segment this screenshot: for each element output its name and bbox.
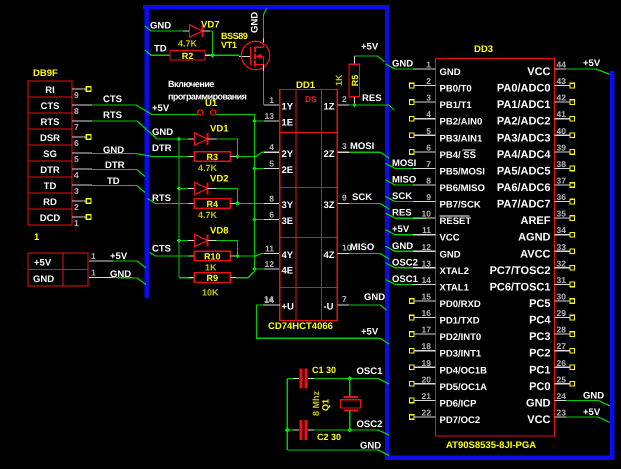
label AT90S8535-8JI-PGA — [446, 440, 536, 451]
junction clamp bus VD8 — [177, 238, 182, 243]
svg-text:3: 3 — [74, 186, 79, 196]
svg-text:2: 2 — [342, 94, 347, 104]
value 4.7K of R4 — [198, 210, 218, 220]
svg-text:PB5/MOSI: PB5/MOSI — [440, 166, 485, 177]
svg-text:AREF: AREF — [521, 215, 551, 227]
svg-text:RESET: RESET — [440, 216, 472, 227]
svg-text:GND: GND — [392, 59, 413, 70]
svg-text:PA6/ADC6: PA6/ADC6 — [497, 182, 551, 194]
wire +5V to R5 top — [355, 42, 385, 65]
wire OSC2 to DD3 pin 13 — [386, 257, 436, 268]
svg-text:34: 34 — [557, 225, 567, 235]
svg-text:R3: R3 — [207, 152, 219, 162]
svg-text:C2 30: C2 30 — [317, 432, 341, 442]
svg-text:SCK: SCK — [352, 192, 372, 203]
svg-text:+5V: +5V — [361, 42, 379, 53]
DD3 pin 20 PD5/OC1A — [410, 374, 488, 393]
svg-text:3Y: 3Y — [282, 200, 294, 211]
value 10K of R9 — [202, 288, 219, 298]
DD1 pin 5 stub — [255, 168, 280, 170]
svg-text:+5V: +5V — [110, 251, 128, 262]
svg-text:PD7/OC2: PD7/OC2 — [440, 415, 481, 426]
svg-text:GND: GND — [250, 12, 261, 33]
label C2 30 — [317, 432, 341, 442]
svg-text:33: 33 — [557, 242, 567, 252]
svg-text:2Y: 2Y — [282, 149, 294, 160]
svg-text:1: 1 — [74, 218, 79, 228]
svg-text:37: 37 — [557, 175, 567, 185]
op-amp DD1 CD74HCT4066 body — [280, 90, 338, 321]
wire OSC2 to blue border — [350, 419, 389, 435]
DD3 pin 4 PB2/AIN0 — [410, 109, 483, 128]
svg-text:29: 29 — [557, 308, 567, 318]
DD3 pin 30 PC5 — [529, 291, 575, 310]
svg-text:36: 36 — [557, 192, 567, 202]
DD3 pin 24 GND — [526, 391, 566, 410]
svg-text:XTAL2: XTAL2 — [440, 266, 469, 277]
junction channel 3 — [235, 254, 240, 259]
power connector body — [28, 253, 88, 286]
svg-text:DSR: DSR — [40, 133, 60, 144]
svg-text:1K: 1K — [334, 74, 344, 86]
svg-text:VD7: VD7 — [201, 20, 219, 31]
switch U1 contacts — [198, 110, 216, 115]
svg-text:20: 20 — [422, 374, 432, 384]
svg-text:9: 9 — [426, 192, 431, 202]
DD1 left pin 5 2E — [269, 159, 293, 177]
DB9F row label RD — [43, 197, 57, 208]
DD3 pin 19 PD4/OC1B — [410, 358, 488, 377]
svg-text:4.7K: 4.7K — [198, 163, 218, 173]
capacitor C2 — [287, 420, 350, 440]
DD3 pin 10 RESET — [413, 209, 471, 228]
svg-text:6: 6 — [74, 138, 79, 148]
svg-text:1: 1 — [426, 60, 431, 70]
wire GND from DB9F pin 5 to R3 — [92, 143, 189, 157]
DD1 right pin 10 4Z — [324, 242, 352, 261]
svg-text:17: 17 — [422, 325, 432, 335]
DB9F row label CTS — [41, 101, 60, 112]
resistor R10 — [189, 251, 237, 261]
DB9F row label DTR — [40, 165, 60, 176]
DD3 pin 18 PD3/INT1 — [410, 341, 482, 360]
DB9F pin 3 stub — [72, 185, 92, 196]
svg-text:7: 7 — [342, 294, 347, 304]
svg-text:MOSI: MOSI — [350, 141, 374, 152]
value 1K of R5 — [334, 74, 344, 86]
svg-text:DB9F: DB9F — [33, 68, 58, 79]
DD1 left pin 12 4E — [265, 259, 294, 277]
svg-text:R2: R2 — [182, 51, 194, 61]
resistor R9 — [189, 273, 237, 283]
DD3 pin 25 PC0 — [529, 374, 575, 393]
DD3 pin 8 PB6/MISO — [413, 175, 485, 194]
DD1 right pin 9 3Z — [324, 192, 350, 211]
svg-text:24: 24 — [557, 391, 567, 401]
svg-text:PC5: PC5 — [529, 298, 550, 310]
value 4.7K of R2 — [178, 39, 198, 49]
resistor R4 — [189, 199, 237, 209]
svg-text:TD: TD — [107, 176, 120, 187]
annotation text line 1 — [168, 79, 214, 89]
svg-text:C1 30: C1 30 — [312, 365, 336, 375]
wire +5V from DD3 pin 23 — [566, 407, 610, 423]
DB9F row label TD — [44, 181, 57, 192]
svg-text:PC2: PC2 — [529, 348, 550, 360]
wire TD from DB9F pin 3 ending at blue border — [92, 176, 145, 193]
svg-text:PB0/T0: PB0/T0 — [440, 84, 472, 95]
wire channel 2 to DD1 pin 8 — [238, 202, 280, 204]
svg-text:RTS: RTS — [103, 110, 122, 121]
label 8 Mhz rotated — [311, 390, 321, 416]
label C1 30 — [312, 365, 336, 375]
DD3 pin 26 PC1 — [529, 358, 575, 377]
svg-text:1: 1 — [91, 268, 96, 278]
wire VD1 cathode to R3 right — [217, 139, 238, 157]
diode VD7 — [183, 25, 210, 37]
svg-text:MOSI: MOSI — [392, 158, 416, 169]
svg-text:7: 7 — [426, 159, 431, 169]
junction channel 2 — [235, 201, 240, 206]
svg-text:VCC: VCC — [527, 66, 550, 78]
svg-text:2Z: 2Z — [324, 149, 335, 160]
wire TD to R2 — [145, 44, 170, 56]
svg-text:OSC1: OSC1 — [392, 274, 419, 285]
svg-text:DTR: DTR — [40, 165, 60, 176]
svg-text:PA4/ADC4: PA4/ADC4 — [497, 149, 551, 161]
svg-text:GND: GND — [583, 390, 604, 401]
svg-text:AVCC: AVCC — [520, 248, 550, 260]
wire U1 to enable bus — [216, 114, 255, 116]
label BSS89 — [221, 31, 248, 41]
DD3 pin 3 PB1/T1 — [410, 93, 473, 112]
wire SCK to DD3 pin 9 — [386, 191, 436, 202]
DD1 left pin 6 3E — [269, 210, 293, 228]
DD1 left pin 1 1Y — [269, 95, 294, 113]
svg-text:PB6/MISO: PB6/MISO — [440, 183, 485, 194]
wire GND from DD1 pin 7 — [349, 292, 387, 310]
DD3 pin 36 PA7/ADC7 — [497, 192, 575, 211]
svg-text:PD0/RXD: PD0/RXD — [440, 299, 481, 310]
DD3 pin 44 VCC — [527, 60, 566, 79]
svg-text:+U: +U — [282, 302, 295, 313]
svg-text:GND: GND — [33, 274, 54, 285]
wire MOSI to DD3 pin 7 — [386, 158, 436, 169]
diode VD1 — [179, 133, 217, 145]
svg-text:40: 40 — [557, 126, 567, 136]
DD1 left pin 13 1E — [265, 111, 294, 129]
svg-text:OSC1: OSC1 — [357, 366, 384, 377]
svg-text:PD1/TXD: PD1/TXD — [440, 316, 480, 327]
svg-text:PA2/ADC2: PA2/ADC2 — [497, 116, 551, 128]
wire CTS from DB9F pin 8 to +5V node — [92, 94, 198, 115]
svg-text:10K: 10K — [202, 288, 219, 298]
svg-text:15: 15 — [422, 291, 432, 301]
svg-text:MISO: MISO — [350, 242, 374, 253]
label VD1 — [210, 124, 229, 135]
svg-text:GND: GND — [364, 292, 385, 303]
svg-text:31: 31 — [557, 275, 567, 285]
junction at R2 right — [210, 53, 215, 58]
wire R5 bottom to RES net — [354, 97, 356, 105]
wire VD2 cathode to R4 right — [217, 189, 238, 204]
svg-text:RTS: RTS — [152, 193, 171, 204]
svg-text:+5V: +5V — [152, 103, 170, 114]
svg-text:PC4: PC4 — [529, 315, 551, 327]
svg-text:OSC2: OSC2 — [392, 257, 418, 268]
wire MOSI from DD1 pin 3 — [349, 141, 389, 158]
svg-text:+5V: +5V — [583, 407, 601, 418]
svg-text:PC3: PC3 — [529, 331, 550, 343]
power connector label +5V — [34, 258, 52, 269]
svg-text:CTS: CTS — [103, 94, 122, 105]
svg-text:PD4/OC1B: PD4/OC1B — [440, 365, 488, 376]
wire channel 3 to DD1 pin 11 — [238, 253, 280, 256]
svg-text:4.7K: 4.7K — [198, 210, 218, 220]
wire crystal GND to blue border — [287, 441, 389, 456]
DD3 pin 40 PA3/ADC3 — [497, 126, 575, 145]
svg-text:3: 3 — [426, 93, 431, 103]
svg-text:GND: GND — [360, 441, 381, 452]
svg-text:VD1: VD1 — [210, 124, 229, 135]
svg-text:4.7K: 4.7K — [178, 39, 198, 49]
power connector pin 1 stub — [89, 251, 113, 261]
wire R9 right to enable bus — [236, 269, 255, 278]
svg-text:26: 26 — [557, 358, 567, 368]
wire VD8 cathode to R10 right — [217, 241, 238, 257]
svg-text:R9: R9 — [207, 273, 219, 283]
wire SCK from DD1 pin 9 — [349, 192, 389, 209]
DB9F pin 7 stub — [72, 121, 92, 132]
connector DB9F body — [28, 81, 72, 225]
wire RES to DD3 pin 10 — [386, 208, 436, 219]
wire GND to DD3 pin 12 — [386, 241, 436, 252]
svg-text:+5V: +5V — [34, 258, 52, 269]
svg-text:GND: GND — [103, 145, 124, 156]
svg-text:1Y: 1Y — [282, 102, 294, 113]
svg-text:TD: TD — [154, 44, 167, 55]
svg-text:28: 28 — [557, 325, 567, 335]
wire +5V from DD1 pin 14 — [257, 305, 390, 344]
DB9F row label DCD — [40, 213, 61, 224]
power connector pin 2 stub — [89, 268, 113, 278]
wire VT1 drain to GND top — [264, 9, 267, 43]
DB9F pin 6 stub — [72, 135, 91, 149]
svg-text:RI: RI — [45, 85, 55, 96]
svg-text:3: 3 — [342, 141, 347, 151]
junction enable bus pin 13 — [252, 119, 257, 124]
svg-text:42: 42 — [557, 93, 567, 103]
svg-text:8 Mhz: 8 Mhz — [311, 390, 321, 416]
diode VD2 — [179, 182, 217, 194]
DD1 pin 6 stub — [255, 219, 280, 221]
crystal Q1 — [341, 379, 361, 431]
svg-text:8: 8 — [426, 175, 431, 185]
svg-text:5: 5 — [426, 126, 431, 136]
svg-text:7: 7 — [74, 122, 79, 132]
label VD8 — [210, 226, 228, 237]
DD1 right pin 3 2Z — [324, 141, 350, 160]
svg-text:22: 22 — [422, 407, 432, 417]
DD1 pin 12 stub — [255, 268, 280, 270]
svg-text:6: 6 — [426, 142, 431, 152]
label VT1 — [221, 40, 237, 50]
svg-text:RD: RD — [43, 197, 57, 208]
svg-text:1Z: 1Z — [324, 102, 335, 113]
wire RTS from DB9F pin 7 to GND clamp bus — [92, 110, 179, 139]
DB9F pin 4 stub — [72, 169, 92, 180]
DD3 pin 15 PD0/RXD — [410, 291, 481, 310]
svg-text:41: 41 — [557, 109, 567, 119]
DD3 pin 1 GND — [413, 60, 461, 79]
DB9F row label DSR — [40, 133, 60, 144]
svg-text:PA5/ADC5: PA5/ADC5 — [497, 165, 551, 177]
DB9F pin 9 stub — [72, 87, 91, 101]
wire +5V from power connector — [110, 251, 146, 268]
wire RES from DD1 pin 2 — [349, 105, 395, 111]
DD3 pin 11 VCC — [413, 225, 460, 244]
svg-text:GND: GND — [526, 397, 551, 409]
DD3 pin 2 PB0/T0 — [410, 76, 472, 95]
wire OSC1 to blue border — [350, 366, 389, 384]
wire OSC1 to DD3 pin 14 — [386, 274, 436, 285]
svg-text:SCK: SCK — [392, 191, 412, 202]
svg-text:DTR: DTR — [105, 160, 125, 171]
svg-text:R10: R10 — [204, 252, 221, 262]
svg-text:1K: 1K — [205, 263, 217, 273]
svg-text:PD3/INT1: PD3/INT1 — [440, 349, 482, 360]
svg-text:GND: GND — [440, 249, 461, 260]
junction channel 1 — [235, 154, 240, 159]
svg-text:AGND: AGND — [518, 232, 550, 244]
DD3 pin 38 PA5/ADC5 — [497, 159, 575, 178]
svg-text:6: 6 — [269, 210, 274, 220]
svg-text:OSC2: OSC2 — [357, 419, 383, 430]
resistor R2 — [170, 51, 205, 62]
DD1 pin 13 stub — [255, 120, 280, 122]
junction enable bus pin 6 — [252, 217, 257, 222]
DD3 pin 7 PB5/MOSI — [413, 159, 485, 178]
wire RTS to R4 — [148, 193, 189, 204]
svg-text:4Z: 4Z — [324, 250, 335, 261]
DD1 left pin 4 2Y — [269, 142, 294, 160]
DD3 pin 13 XTAL2 — [413, 258, 469, 277]
svg-text:44: 44 — [557, 60, 567, 70]
DB9F row label RI — [45, 85, 55, 96]
DD3 pin 5 PB3/AIN1 — [410, 126, 483, 145]
wire MISO to DD3 pin 8 — [386, 174, 436, 185]
svg-text:19: 19 — [422, 358, 432, 368]
junction clamp bus VD2 — [177, 186, 182, 191]
svg-text:Q1: Q1 — [321, 399, 331, 411]
svg-text:1: 1 — [269, 95, 274, 105]
label VD2 — [210, 174, 228, 185]
wire GND from power connector — [110, 269, 146, 285]
enable bus vertical — [254, 115, 256, 270]
svg-text:CD74HCT4066: CD74HCT4066 — [268, 321, 333, 332]
svg-text:PB3/AIN1: PB3/AIN1 — [440, 133, 483, 144]
svg-text:Включение: Включение — [168, 79, 214, 89]
svg-text:RES: RES — [362, 93, 382, 104]
wire GND to DD3 pin 1 — [386, 59, 436, 70]
wire CTS to R10 — [150, 244, 189, 257]
svg-text:4: 4 — [269, 142, 274, 152]
svg-text:GND: GND — [152, 127, 173, 138]
wire GND from DD3 pin 24 — [566, 390, 610, 406]
svg-text:DD1: DD1 — [296, 80, 316, 91]
svg-text:+5V: +5V — [392, 224, 410, 235]
DD1 left pin 11 4Y — [265, 243, 294, 261]
svg-text:PB2/AIN0: PB2/AIN0 — [440, 117, 483, 128]
junction enable bus pin 5 — [252, 166, 257, 171]
svg-text:11: 11 — [265, 243, 274, 253]
svg-text:1E: 1E — [282, 118, 294, 129]
value 1K of R10 — [205, 263, 217, 273]
DD1 pin 14 stub — [263, 294, 280, 305]
wire crystal left vertical — [286, 379, 288, 451]
wire DTR from DB9F pin 4 ending at blue border — [92, 160, 145, 177]
blue border right segment — [610, 71, 615, 460]
svg-text:11: 11 — [422, 225, 431, 235]
svg-text:VT1: VT1 — [221, 40, 237, 50]
svg-text:VCC: VCC — [527, 414, 550, 426]
svg-text:13: 13 — [422, 258, 432, 268]
svg-text:PA1/ADC1: PA1/ADC1 — [497, 99, 551, 111]
svg-text:27: 27 — [557, 341, 567, 351]
DD3 pin 9 PB7/SCK — [413, 192, 481, 211]
junction clamp bus VD1 — [177, 137, 182, 142]
svg-text:CTS: CTS — [152, 244, 171, 255]
transistor VT1 BSS89 MOSFET — [239, 41, 270, 69]
label Q1 rotated — [321, 399, 331, 411]
svg-text:12: 12 — [265, 259, 275, 269]
DD3 pin 31 PC6/TOSC1 — [490, 275, 575, 294]
DD3 pin 34 AGND — [518, 225, 574, 244]
svg-text:PD6/ICP: PD6/ICP — [440, 398, 478, 409]
svg-text:XTAL1: XTAL1 — [440, 282, 470, 293]
svg-text:2: 2 — [74, 202, 79, 212]
DD3 pin 12 GND — [413, 242, 461, 260]
svg-text:39: 39 — [557, 142, 567, 152]
svg-text:PD5/OC1A: PD5/OC1A — [440, 382, 488, 393]
svg-text:-U: -U — [324, 302, 334, 313]
microcontroller DD3 AT90S8535 body — [436, 59, 555, 437]
svg-text:9: 9 — [74, 90, 79, 100]
wire clamp bus corner to R9 — [179, 277, 194, 279]
svg-text:PC0: PC0 — [529, 381, 550, 393]
svg-text:PA7/ADC7: PA7/ADC7 — [497, 199, 551, 211]
svg-text:VD2: VD2 — [210, 174, 228, 185]
DB9F pin 8 stub — [72, 105, 92, 116]
svg-text:VD8: VD8 — [210, 226, 228, 237]
svg-text:18: 18 — [422, 341, 432, 351]
svg-text:GND: GND — [440, 67, 461, 78]
DB9F pin 1 stub — [72, 215, 91, 229]
svg-text:16: 16 — [422, 308, 432, 318]
svg-text:AT90S8535-8JI-PGA: AT90S8535-8JI-PGA — [446, 440, 536, 451]
svg-text:13: 13 — [265, 111, 275, 121]
DD1 left pin 14 +U — [265, 295, 295, 313]
wire VD7 cathode to R2 right and VT1 gate — [205, 31, 239, 55]
wire +5V to DD3 pin 11 — [386, 224, 436, 235]
svg-text:PC7/TOSC2: PC7/TOSC2 — [490, 265, 551, 277]
DD3 pin 22 PD7/OC2 — [410, 407, 481, 426]
svg-text:RTS: RTS — [41, 117, 60, 128]
DD3 pin 6 PB4/SS — [410, 142, 476, 161]
junction enable bus pin 12 — [252, 267, 257, 272]
junction R5 RES — [352, 103, 357, 108]
svg-text:+5V: +5V — [583, 58, 601, 69]
